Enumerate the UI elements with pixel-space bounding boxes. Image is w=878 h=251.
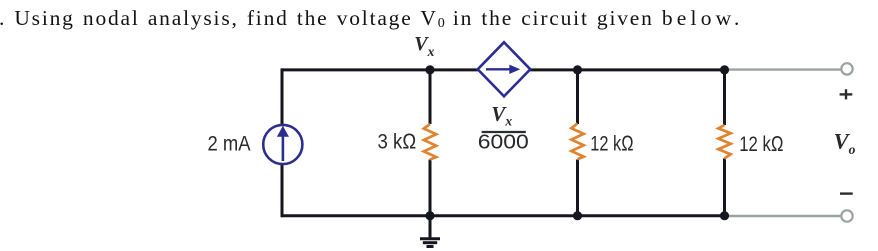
- svg-text:2 mA: 2 mA: [208, 132, 252, 156]
- svg-text:12 kΩ: 12 kΩ: [590, 131, 634, 155]
- svg-text:Vx: Vx: [491, 102, 512, 129]
- svg-text:12 kΩ: 12 kΩ: [739, 132, 784, 156]
- svg-text:6000: 6000: [478, 131, 529, 153]
- svg-text:3 kΩ: 3 kΩ: [378, 129, 417, 153]
- svg-text:Vo: Vo: [834, 128, 856, 157]
- svg-text:Vx: Vx: [414, 33, 434, 59]
